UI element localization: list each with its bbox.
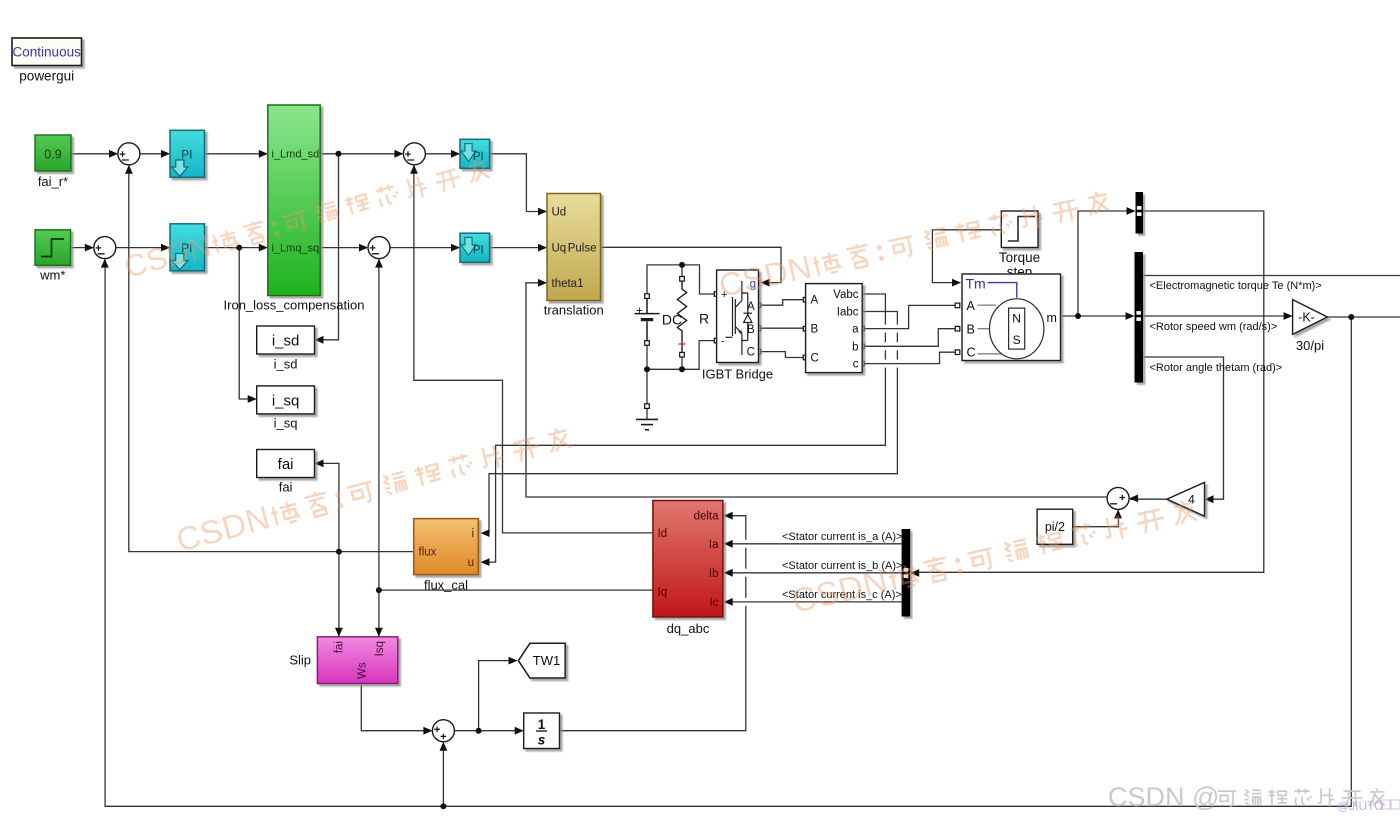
wire theta sum output to theta1 [526, 283, 1107, 497]
wire IGBT B to meas B [761, 327, 804, 329]
wire Iq down to Slip Isq [378, 590, 380, 636]
svg-text:PI: PI [181, 147, 192, 161]
node bottom line branch [440, 803, 446, 809]
svg-text:Id: Id [658, 528, 668, 540]
watermark diagonal 4 [788, 492, 1198, 621]
port squares [645, 277, 960, 409]
bus selector large [1135, 252, 1144, 383]
svg-text:Vabc: Vabc [833, 289, 859, 301]
wire Vabc to flux u [482, 294, 886, 562]
wire machine m to bus selector [1061, 315, 1134, 317]
wire Pulse to g [601, 247, 782, 282]
wire flux branch down to Slip fai [338, 552, 340, 636]
watermark diagonal 3 [716, 183, 1112, 304]
wire DC minus [646, 345, 648, 369]
wire speed feedback bottom [1327, 316, 1400, 318]
wire R bottom [681, 357, 683, 369]
step block Torque step [1001, 211, 1038, 248]
wire IGBT A to meas A [761, 300, 804, 306]
svg-text:i_sq: i_sq [274, 416, 298, 431]
svg-text:30/pi: 30/pi [1296, 338, 1324, 353]
svg-text:+: + [636, 304, 643, 318]
wire wm* to sum2 [71, 247, 93, 249]
wire PI1 to i_Lmd_sd [205, 153, 267, 155]
wire branch to i_sd scope [316, 154, 339, 340]
svg-text:Ud: Ud [552, 207, 567, 219]
wire is_b to Ib [725, 572, 902, 574]
subsystem dq_abc [653, 501, 723, 618]
svg-text:R: R [699, 311, 709, 327]
svg-text:Ic: Ic [710, 597, 719, 609]
svg-text:Tm: Tm [966, 275, 986, 291]
svg-text:<Rotor angle thetam (rad)>: <Rotor angle thetam (rad)> [1150, 362, 1283, 374]
svg-text:<Electromagnetic torque Te (N*: <Electromagnetic torque Te (N*m)> [1150, 280, 1322, 292]
svg-text:Iron_loss_compensation: Iron_loss_compensation [224, 298, 365, 313]
wire m branch to demux [1078, 211, 1135, 316]
wire Iabc to flux i [482, 312, 898, 534]
svg-text:C: C [811, 353, 819, 365]
svg-text:flux_cal: flux_cal [424, 578, 468, 593]
wire wm to gain -K- [1143, 315, 1292, 317]
svg-text:fai: fai [334, 641, 346, 653]
svg-text:i_sd: i_sd [272, 333, 300, 350]
svg-text:<Stator current is_a (A)>: <Stator current is_a (A)> [782, 531, 902, 543]
svg-text:C: C [967, 346, 976, 360]
wire flux to fai sum1 [129, 166, 414, 552]
wire demux to stator bus selector [911, 211, 1264, 572]
svg-text:wm*: wm* [39, 268, 65, 283]
svg-text:s: s [538, 733, 546, 748]
wire to ground [646, 369, 648, 419]
svg-text:dq_abc: dq_abc [667, 621, 710, 636]
svg-text:fai_r*: fai_r* [38, 174, 68, 189]
gain 4 [1167, 482, 1205, 516]
svg-text:powergui: powergui [19, 69, 74, 84]
sum3 [403, 143, 425, 165]
svg-text:TW1: TW1 [533, 653, 560, 668]
integrator 1/s [524, 713, 560, 749]
goto tag TW1 [518, 643, 565, 678]
svg-text:fai: fai [278, 456, 294, 473]
wire flux branch up to fai scope [316, 463, 339, 551]
PI controller 4 [460, 233, 490, 262]
svg-text:Ws: Ws [357, 662, 369, 679]
subsystem translation [547, 194, 601, 301]
wire theta angle to gain4 [1143, 357, 1224, 499]
constant fai_r* [35, 135, 71, 171]
svg-text:C: C [747, 346, 755, 358]
wire Iq up to sum4 [378, 260, 380, 590]
wire IGBT C to meas C [761, 352, 804, 358]
svg-text:Ib: Ib [709, 568, 719, 580]
sum4 [368, 237, 390, 259]
svg-text:Ia: Ia [709, 539, 719, 551]
svg-text:b: b [852, 341, 858, 353]
wire gain4 to theta sum [1130, 498, 1167, 500]
svg-text:Slip: Slip [289, 653, 311, 668]
svg-text:B: B [967, 322, 975, 336]
svg-text:theta1: theta1 [552, 278, 584, 290]
sum2 [94, 237, 116, 259]
wire Id feedback to sum3 [414, 166, 653, 533]
wire pi/2 to theta sum [1073, 510, 1119, 526]
svg-text:Pulse: Pulse [568, 243, 597, 255]
wire i_Lmd_sd out to sum3 [320, 153, 402, 155]
wire minus rail to IGBT - [647, 341, 714, 370]
wire i_Lmq_sq out to sum4 [320, 247, 367, 249]
svg-text:N: N [1012, 312, 1021, 326]
sum6 theta [1107, 487, 1129, 509]
arrows [85, 150, 1293, 751]
sum5 [432, 720, 454, 742]
svg-text:i: i [471, 528, 474, 540]
node Iq line branch [376, 587, 382, 593]
svg-text:Isq: Isq [374, 641, 386, 656]
wire is_c to Ic [725, 601, 902, 603]
wire branch bottom to sum5 [442, 743, 444, 807]
wire meas b to machine B [865, 329, 957, 347]
svg-text:A: A [967, 299, 976, 313]
svg-text:m: m [1047, 311, 1057, 325]
svg-text:Iabc: Iabc [837, 306, 859, 318]
svg-text:i_Lmd_sd: i_Lmd_sd [272, 149, 320, 161]
demux bus bar small [1136, 192, 1144, 234]
svg-text:B: B [811, 324, 819, 336]
watermark gray CSDN [1108, 782, 1385, 812]
wire Iq feedback line [379, 589, 653, 591]
subsystem flux_cal [414, 519, 479, 575]
svg-text:-: - [721, 336, 725, 348]
bus selector stator currents [902, 529, 911, 617]
wire branch to i_sq scope [239, 248, 256, 399]
wire is_a to Ia [725, 543, 902, 545]
svg-text:1: 1 [538, 717, 546, 732]
node DC bottom rail right [679, 366, 685, 372]
svg-text:DC: DC [662, 312, 682, 328]
PI controller 2 [170, 224, 205, 271]
svg-text:@JIUTO: @JIUTO [1337, 799, 1384, 813]
sum1 [118, 143, 140, 165]
PI controller 1 [170, 130, 205, 177]
wire R top [681, 265, 683, 277]
scope i_sq [257, 386, 315, 414]
wire PI2 to i_Lmq_sq [205, 247, 267, 249]
svg-text:+: + [678, 336, 687, 353]
node DC top rail [679, 262, 685, 268]
svg-text:<Rotor speed wm (rad/s)>: <Rotor speed wm (rad/s)> [1150, 321, 1278, 333]
node gain output branch [1348, 314, 1354, 320]
svg-text:i_sq: i_sq [272, 392, 300, 409]
three-phase VI measurement block [806, 284, 863, 373]
powergui block [12, 38, 82, 66]
svg-text:Torque: Torque [999, 250, 1040, 265]
PI controller 3 [460, 139, 490, 168]
wire meas a to machine A [865, 305, 957, 328]
wire DC plus rail to IGBT + [647, 265, 714, 294]
watermark diagonal 2 [172, 418, 573, 559]
node sum5 out branch [476, 728, 482, 734]
wire sum3 to PI3 [425, 153, 459, 155]
IGBT Bridge block [717, 270, 759, 363]
svg-text:Continuous: Continuous [13, 45, 82, 60]
subsystem Iron_loss_compensation [268, 105, 320, 296]
wire PI3 to Ud [490, 154, 546, 212]
node machine m branch [1075, 313, 1081, 319]
DC voltage source [635, 298, 660, 341]
watermark diagonal 1 [121, 152, 492, 285]
node flux line branch [336, 549, 342, 555]
wire sum2 to PI2 [116, 247, 169, 249]
svg-text:pi/2: pi/2 [1045, 520, 1065, 534]
svg-text:u: u [468, 557, 474, 569]
subsystem Slip [317, 637, 397, 684]
svg-text:Uq: Uq [552, 243, 567, 255]
ground [636, 419, 658, 429]
asynchronous machine block [962, 274, 1061, 361]
node DC bottom rail left [644, 366, 650, 372]
svg-text:0.9: 0.9 [44, 147, 61, 161]
wire sum1 to PI1 [140, 153, 169, 155]
svg-text:A: A [811, 295, 819, 307]
svg-text:IGBT Bridge: IGBT Bridge [702, 367, 773, 382]
svg-text:PI: PI [473, 245, 484, 257]
node i_Lmd_sd branch [336, 151, 342, 157]
wire Te output [1143, 275, 1400, 277]
wire fai_r* to sum1 [71, 153, 117, 155]
wire sum4 to PI4 [390, 247, 459, 249]
scope fai [257, 450, 315, 478]
wire integrator to delta [560, 516, 746, 731]
node i_Lmq_sq branch [236, 245, 242, 251]
svg-text:a: a [852, 324, 859, 336]
svg-text:S: S [1013, 333, 1021, 347]
svg-text:flux: flux [419, 547, 437, 559]
wire Slip Ws to sum5 [361, 684, 431, 731]
resistor R [677, 281, 686, 353]
wire PI4 to Uq [490, 247, 546, 249]
scope i_sd [257, 326, 315, 354]
gain -K- (30/pi) [1293, 300, 1328, 335]
svg-text:c: c [853, 359, 859, 371]
svg-text:i_Lmq_sq: i_Lmq_sq [272, 242, 320, 254]
step wm* [35, 230, 71, 265]
svg-text:fai: fai [279, 480, 293, 495]
wire torque step to Tm [932, 230, 1001, 283]
svg-text:Iq: Iq [658, 587, 668, 599]
wire branch to TW1 goto [479, 661, 517, 731]
constant pi/2 [1037, 509, 1073, 544]
svg-text:-K-: -K- [1298, 310, 1315, 324]
wire meas c to machine C [865, 352, 957, 363]
svg-text:i_sd: i_sd [274, 357, 298, 372]
svg-text:translation: translation [544, 303, 604, 318]
svg-text:delta: delta [694, 511, 720, 523]
wire sum5 to integrator [454, 730, 522, 732]
